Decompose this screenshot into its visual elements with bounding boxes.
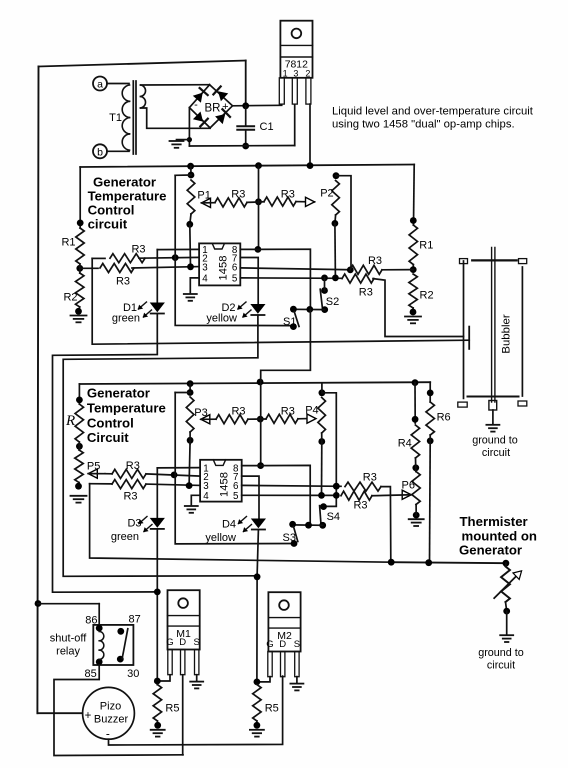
svg-text:R4: R4	[398, 438, 412, 450]
svg-text:3: 3	[202, 262, 208, 273]
svg-text:G: G	[166, 637, 173, 648]
svg-text:R3: R3	[231, 405, 245, 417]
svg-text:Control: Control	[88, 203, 135, 218]
svg-text:5: 5	[233, 491, 239, 502]
svg-text:R3: R3	[123, 490, 137, 502]
svg-text:T1: T1	[109, 112, 122, 124]
svg-text:Liquid level and over-temperat: Liquid level and over-temperature circui…	[332, 106, 534, 118]
svg-text:Temperature: Temperature	[87, 400, 166, 415]
svg-text:1458: 1458	[218, 256, 230, 281]
svg-text:ground to: ground to	[478, 647, 524, 659]
svg-text:Buzzer: Buzzer	[94, 714, 129, 726]
svg-text:mounted on: mounted on	[462, 529, 537, 544]
svg-text:BR: BR	[205, 103, 221, 115]
svg-text:+: +	[85, 710, 92, 722]
svg-text:R3: R3	[281, 188, 295, 200]
svg-text:relay: relay	[56, 646, 80, 658]
svg-text:C1: C1	[260, 121, 274, 133]
svg-text:3: 3	[293, 68, 298, 78]
svg-text:R1: R1	[419, 240, 433, 252]
svg-text:1458: 1458	[219, 472, 231, 497]
svg-text:Generator: Generator	[87, 386, 150, 401]
svg-text:Temperature: Temperature	[88, 189, 167, 204]
svg-text:S2: S2	[326, 296, 339, 308]
svg-text:P4: P4	[305, 405, 318, 417]
svg-text:Control: Control	[87, 415, 134, 430]
svg-text:R5: R5	[165, 703, 179, 715]
svg-text:ground to: ground to	[472, 435, 518, 447]
svg-text:R2: R2	[63, 292, 77, 304]
svg-text:yellow: yellow	[206, 313, 237, 325]
svg-text:Generator: Generator	[93, 175, 156, 190]
svg-text:circuit: circuit	[487, 660, 515, 672]
svg-text:S1: S1	[283, 316, 296, 328]
svg-text:R3: R3	[368, 255, 382, 267]
svg-text:R3: R3	[131, 243, 145, 255]
svg-text:D: D	[279, 639, 286, 650]
svg-text:D4: D4	[222, 519, 236, 531]
svg-text:R5: R5	[265, 703, 279, 715]
svg-text:D: D	[179, 637, 186, 648]
svg-text:yellow: yellow	[205, 532, 236, 544]
svg-text:Circuit: Circuit	[87, 430, 129, 445]
svg-text:G: G	[266, 639, 273, 650]
svg-text:Generator: Generator	[459, 543, 522, 558]
svg-text:P2: P2	[320, 188, 333, 200]
svg-text:R: R	[65, 413, 75, 429]
svg-text:circuit: circuit	[482, 447, 510, 459]
svg-text:S: S	[194, 637, 200, 648]
svg-text:4: 4	[203, 491, 209, 502]
svg-text:S3: S3	[283, 532, 296, 544]
svg-text:shut-off: shut-off	[50, 633, 87, 645]
svg-text:using two 1458 "dual" op-amp c: using two 1458 "dual" op-amp chips.	[332, 119, 515, 131]
svg-text:R3: R3	[353, 500, 367, 512]
svg-text:30: 30	[127, 668, 139, 680]
svg-text:P6: P6	[402, 480, 415, 492]
svg-text:circuit: circuit	[88, 217, 128, 232]
svg-text:Thermister: Thermister	[460, 514, 528, 529]
svg-text:6: 6	[232, 262, 238, 273]
svg-text:green: green	[111, 531, 139, 543]
svg-text:-: -	[194, 99, 198, 111]
svg-text:R3: R3	[126, 460, 140, 472]
svg-text:Pizo: Pizo	[100, 701, 121, 713]
svg-text:4: 4	[202, 274, 208, 285]
svg-text:R3: R3	[231, 188, 245, 200]
svg-text:87: 87	[129, 614, 141, 626]
svg-text:S4: S4	[327, 511, 340, 523]
svg-text:1: 1	[283, 68, 288, 78]
svg-text:R3: R3	[359, 286, 373, 298]
svg-text:S: S	[294, 639, 300, 650]
svg-text:R6: R6	[437, 412, 451, 424]
svg-text:R3: R3	[281, 405, 295, 417]
svg-text:R1: R1	[61, 237, 75, 249]
svg-text:R3: R3	[363, 472, 377, 484]
svg-text:85: 85	[85, 668, 97, 680]
svg-text:b: b	[97, 146, 103, 158]
svg-text:green: green	[112, 313, 140, 325]
svg-text:+: +	[222, 101, 228, 113]
svg-text:5: 5	[232, 274, 238, 285]
svg-text:R3: R3	[116, 275, 130, 287]
svg-text:Bubbler: Bubbler	[501, 314, 513, 353]
svg-text:2: 2	[305, 68, 310, 78]
svg-text:86: 86	[85, 614, 97, 626]
svg-text:R2: R2	[420, 290, 434, 302]
svg-text:a: a	[97, 79, 103, 91]
